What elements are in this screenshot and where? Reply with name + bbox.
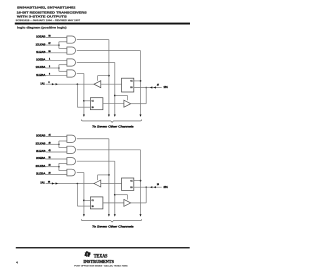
svg-text:2CLKBA: 2CLKBA (36, 165, 46, 168)
svg-text:To Seven Other Channels: To Seven Other Channels (92, 225, 135, 228)
svg-text:21: 21 (48, 157, 50, 159)
svg-text:2: 2 (49, 66, 50, 68)
svg-text:44: 44 (48, 135, 50, 137)
svg-text:2OEAB: 2OEAB (36, 135, 46, 138)
svg-text:56: 56 (48, 35, 50, 37)
svg-text:1LEBA: 1LEBA (36, 74, 46, 77)
svg-text:3: 3 (49, 74, 50, 76)
svg-text:43: 43 (48, 142, 50, 144)
svg-text:2A1: 2A1 (40, 182, 45, 185)
svg-text:logic diagram (positive logic): logic diagram (positive logic) (17, 26, 67, 30)
svg-text:42: 42 (48, 150, 50, 152)
svg-text:23: 23 (48, 173, 50, 175)
svg-text:1OEAB: 1OEAB (36, 36, 46, 39)
svg-text:SCBS161B – JANUARY 1994 – REVI: SCBS161B – JANUARY 1994 – REVISED MAY 19… (16, 19, 82, 22)
svg-text:WITH 3-STATE OUTPUTS: WITH 3-STATE OUTPUTS (17, 15, 67, 19)
svg-text:C1: C1 (130, 81, 132, 83)
svg-text:58: 58 (48, 51, 50, 53)
svg-text:2LEBA: 2LEBA (36, 173, 46, 176)
svg-text:1LEAB: 1LEAB (36, 51, 46, 54)
svg-text:C1: C1 (92, 101, 94, 103)
svg-text:22: 22 (48, 165, 50, 167)
svg-text:C1: C1 (130, 180, 132, 182)
svg-text:2CLKAB: 2CLKAB (36, 142, 46, 145)
svg-text:SN54ABT16452, SN74ABT16452: SN54ABT16452, SN74ABT16452 (17, 6, 76, 10)
svg-text:INSTRUMENTS: INSTRUMENTS (83, 259, 114, 264)
svg-text:1A1: 1A1 (40, 82, 45, 85)
svg-text:2B1: 2B1 (164, 186, 169, 189)
svg-text:2LEAB: 2LEAB (36, 150, 46, 153)
svg-text:1B1: 1B1 (164, 86, 169, 89)
svg-text:1CLKAB: 1CLKAB (36, 43, 46, 46)
svg-text:57: 57 (48, 43, 50, 45)
svg-text:C1: C1 (92, 200, 94, 202)
svg-text:1: 1 (49, 58, 50, 60)
svg-text:2OEBA: 2OEBA (36, 157, 46, 160)
svg-text:25: 25 (157, 184, 159, 186)
svg-text:POST OFFICE BOX 655303 • DALLA: POST OFFICE BOX 655303 • DALLAS, TEXAS 7… (74, 264, 127, 267)
svg-text:47: 47 (157, 85, 159, 87)
svg-text:1OEBA: 1OEBA (36, 58, 46, 61)
svg-text:1CLKBA: 1CLKBA (36, 66, 46, 69)
svg-text:To Seven Other Channels: To Seven Other Channels (92, 126, 135, 129)
